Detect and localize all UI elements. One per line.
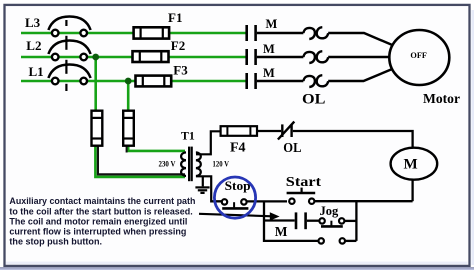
- svg-text:F4: F4: [230, 140, 246, 155]
- svg-text:Jog: Jog: [320, 204, 340, 218]
- svg-text:L1: L1: [29, 64, 44, 79]
- svg-text:M: M: [275, 224, 288, 239]
- svg-text:to the coil after the start bu: to the coil after the start button is re…: [9, 206, 192, 216]
- svg-text:M: M: [263, 66, 275, 80]
- svg-text:F2: F2: [171, 38, 185, 53]
- svg-text:L2: L2: [26, 38, 41, 53]
- svg-text:OFF: OFF: [410, 51, 427, 60]
- svg-text:Stop: Stop: [225, 178, 251, 193]
- svg-text:F3: F3: [173, 62, 188, 77]
- svg-text:Auxiliary contact maintains th: Auxiliary contact maintains the current …: [9, 196, 195, 206]
- svg-text:120 V: 120 V: [213, 159, 230, 168]
- svg-text:F1: F1: [168, 10, 182, 25]
- svg-text:M: M: [263, 42, 275, 56]
- svg-text:T1: T1: [181, 129, 195, 143]
- svg-text:OL: OL: [283, 140, 301, 155]
- svg-text:L3: L3: [25, 15, 41, 30]
- svg-text:The coil and motor remain ener: The coil and motor remain energized unti…: [9, 216, 187, 226]
- svg-text:M: M: [404, 157, 418, 173]
- svg-text:OL: OL: [302, 92, 326, 108]
- svg-text:230 V: 230 V: [159, 159, 176, 168]
- svg-text:Motor: Motor: [423, 92, 460, 107]
- svg-text:the stop push button.: the stop push button.: [9, 237, 102, 247]
- svg-text:current flow is interrupted wh: current flow is interrupted when pressin…: [9, 227, 186, 237]
- svg-text:M: M: [266, 17, 278, 31]
- svg-text:Start: Start: [286, 175, 322, 190]
